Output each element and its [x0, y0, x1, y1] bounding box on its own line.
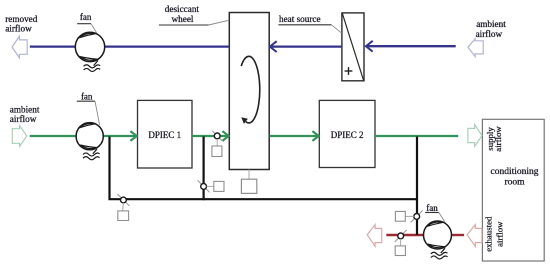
supply airflow label	[485, 126, 503, 152]
svg-text:fan: fan	[80, 12, 92, 22]
heat source box	[342, 13, 364, 81]
svg-text:exhausted: exhausted	[483, 216, 493, 252]
svg-text:DPIEC 2: DPIEC 2	[331, 130, 364, 140]
wire: black return duct left vertical + bottom horizontal	[110, 137, 418, 200]
plus sign in heat source	[345, 67, 353, 75]
damper valve V2 on vertical duct	[198, 180, 224, 192]
conditioning room label	[490, 167, 538, 187]
damper valve V5 on red exhaust line	[395, 230, 407, 256]
blue arrowhead at heat source	[366, 41, 373, 52]
wire: blue line fan to wheel	[105, 45, 230, 47]
removed airflow label	[5, 14, 38, 34]
svg-text:airflow: airflow	[5, 24, 32, 34]
hollow arrow: ambient airflow top right (blue outline)	[468, 39, 483, 57]
desiccant wheel box	[229, 13, 269, 170]
wire: black vertical from green line after DPIEC 2 down to red line	[416, 137, 418, 236]
DPIEC 1 box	[138, 100, 193, 168]
svg-text:ambient: ambient	[10, 104, 40, 114]
svg-text:airflow: airflow	[10, 114, 37, 124]
fan F1 (top)	[75, 32, 104, 71]
svg-text:fan: fan	[426, 203, 438, 213]
green arrowhead at wheel	[222, 131, 228, 141]
svg-text:heat source: heat source	[279, 14, 321, 24]
ambient airflow (top) label	[476, 19, 507, 39]
svg-text:room: room	[504, 177, 525, 187]
hollow arrow: removed airflow (left, blue outline)	[12, 36, 27, 58]
wire: green line fan to DPIEC 1	[103, 135, 137, 137]
blue arrowhead at wheel	[270, 41, 277, 52]
damper valve V1 on green line	[212, 131, 222, 157]
svg-text:wheel: wheel	[172, 14, 194, 24]
wire: red line exhaust arrow to fan	[386, 234, 423, 236]
desiccant wheel label	[159, 4, 229, 25]
wire: green line ambient to fan	[30, 135, 77, 137]
wire: blue line heat source to ambient	[366, 45, 456, 47]
hollow arrow: exhausted airflow out of room (red outline)	[467, 225, 482, 247]
svg-text:desiccant: desiccant	[165, 4, 200, 14]
heat source label	[278, 14, 341, 33]
exhausted airflow label	[483, 216, 504, 252]
hollow arrow: ambient airflow mid left (green outline)	[12, 126, 26, 147]
svg-text:DPIEC 1: DPIEC 1	[148, 130, 181, 140]
green arrowhead at DPIEC 2	[312, 131, 318, 141]
fan F3 label	[425, 203, 445, 223]
damper valve V4 on vertical duct to exhaust fan	[395, 210, 422, 222]
wheel rotation arrow	[241, 56, 260, 124]
wire: blue line wheel to heat source	[270, 45, 342, 47]
conditioning room box	[482, 119, 544, 261]
damper valve V3 on bottom duct corner	[117, 194, 129, 221]
svg-text:airflow: airflow	[493, 126, 503, 152]
ambient airflow (mid) label	[10, 104, 40, 124]
svg-text:airflow: airflow	[495, 221, 505, 247]
fan F2 label	[77, 92, 100, 125]
wire: blue line removed-air to fan	[30, 45, 76, 47]
svg-text:fan: fan	[81, 92, 93, 102]
wire: red line fan to room	[451, 234, 464, 236]
green arrowhead at DPIEC 1	[130, 131, 136, 141]
wire: green line DPIEC 1 to wheel	[192, 135, 229, 137]
sensor box below wheel	[241, 170, 256, 194]
fan F2 (middle)	[76, 123, 103, 160]
wire: black vertical from green line after DPIEC 1	[203, 137, 205, 201]
wire: green line wheel to DPIEC 2	[270, 135, 319, 137]
hollow arrow: exhaust discharge (red outline)	[367, 225, 382, 247]
fan F1 label	[77, 12, 97, 33]
svg-text:airflow: airflow	[476, 29, 503, 39]
DPIEC 2 box	[319, 100, 375, 167]
wire: green line DPIEC 2 to room	[375, 135, 458, 137]
svg-text:conditioning: conditioning	[490, 167, 538, 177]
fan F3 (bottom exhaust)	[424, 221, 452, 259]
svg-text:ambient: ambient	[476, 19, 506, 29]
hollow arrow: supply airflow into room (green outline)	[468, 125, 482, 147]
svg-text:removed: removed	[5, 14, 38, 24]
